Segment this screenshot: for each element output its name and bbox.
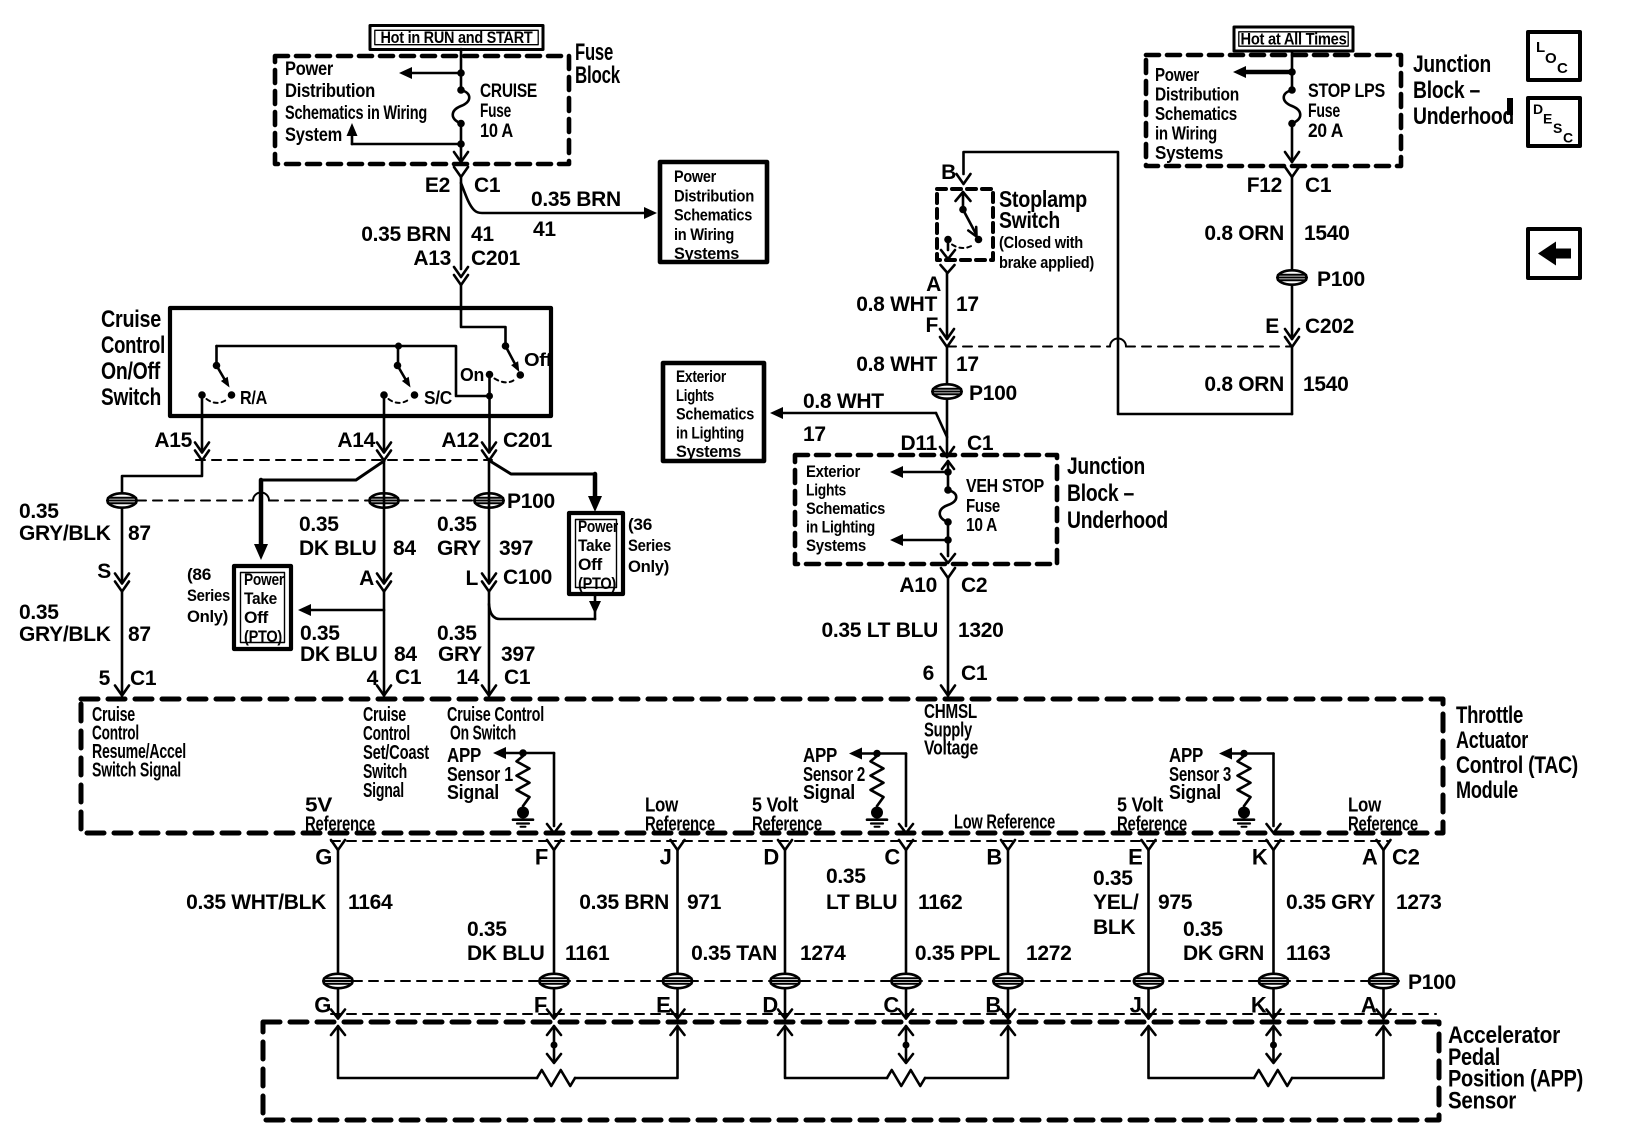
connector chevron at B xyxy=(941,161,970,184)
svg-text:Switch: Switch xyxy=(999,207,1060,233)
svg-text:C201: C201 xyxy=(471,247,521,270)
branch wire to exterior lights box xyxy=(770,407,947,437)
labels 0.35 BRN | 41 xyxy=(361,223,494,246)
labels 0.35 DK BLU | 84 upper xyxy=(299,513,416,560)
wire label 0.35 LT BLU | 1162 xyxy=(826,865,962,914)
splice A double chevron xyxy=(359,567,391,592)
svg-text:A12: A12 xyxy=(441,429,479,452)
svg-text:GRY/BLK: GRY/BLK xyxy=(19,522,111,545)
svg-text:41: 41 xyxy=(533,218,556,241)
R/A contact dots and throw arc xyxy=(198,391,235,403)
svg-text:DK BLU: DK BLU xyxy=(299,537,377,560)
svg-text:6: 6 xyxy=(923,662,934,685)
connector C202 dashed line with hop xyxy=(947,339,1292,347)
R/A switch arm xyxy=(217,366,230,388)
svg-text:GRY/BLK: GRY/BLK xyxy=(19,623,111,646)
wire On contact down xyxy=(488,375,491,397)
svg-text:397: 397 xyxy=(499,537,533,560)
svg-text:Junction: Junction xyxy=(1413,51,1491,78)
wire 0.35 BRN 41 down to C201 xyxy=(460,177,463,269)
svg-text:P100: P100 xyxy=(507,490,555,513)
svg-text:17: 17 xyxy=(803,423,826,446)
svg-text:1540: 1540 xyxy=(1304,222,1350,245)
chevron into TAC at pin 6 xyxy=(941,686,955,696)
connector oval P100 on GRY wire xyxy=(474,493,504,507)
LOC index box xyxy=(1528,32,1580,80)
svg-text:Power: Power xyxy=(1155,65,1199,85)
svg-text:S: S xyxy=(97,560,111,583)
arrow to exterior lights (left) upper xyxy=(890,466,948,478)
svg-text:Hot at All Times: Hot at All Times xyxy=(1241,30,1347,49)
label: Stoplamp Switch (Closed with brake applied) xyxy=(999,186,1094,272)
svg-text:Cruise: Cruise xyxy=(101,306,161,333)
wire A12 down through P100 xyxy=(488,461,491,584)
chevron into TAC at pin 4 xyxy=(377,686,391,696)
APP potentiometer 2 wiper xyxy=(899,1026,913,1063)
svg-text:Exterior: Exterior xyxy=(806,463,861,481)
svg-text:0.35 LT BLU: 0.35 LT BLU xyxy=(822,619,939,642)
svg-text:STOP LPS: STOP LPS xyxy=(1308,81,1385,102)
fuse CRUISE Fuse 10 A xyxy=(453,86,470,127)
svg-text:0.35 WHT/BLK: 0.35 WHT/BLK xyxy=(186,891,326,914)
svg-text:Junction: Junction xyxy=(1067,453,1145,480)
label: Cruise Control On/Off Switch xyxy=(101,306,165,411)
thick arrow to power distribution xyxy=(1233,66,1292,78)
svg-text:0.35: 0.35 xyxy=(437,622,477,645)
svg-text:G: G xyxy=(314,993,331,1018)
svg-text:87: 87 xyxy=(128,522,151,545)
svg-text:0.35: 0.35 xyxy=(19,601,59,624)
svg-text:brake applied): brake applied) xyxy=(999,253,1094,272)
svg-text:C: C xyxy=(884,845,900,870)
svg-text:84: 84 xyxy=(394,643,417,666)
labels 0.35 GRY | 397 lower xyxy=(437,622,535,666)
svg-text:Reference: Reference xyxy=(305,814,375,836)
label: STOP LPS Fuse 20 A xyxy=(1308,81,1385,142)
svg-text:(86: (86 xyxy=(187,566,211,584)
svg-text:17: 17 xyxy=(956,293,979,316)
DESC index box xyxy=(1528,98,1580,146)
label: Throttle Actuator Control (TAC) Module xyxy=(1456,702,1578,804)
P100 dashed line upper xyxy=(137,493,474,501)
label: CHMSL Supply Voltage xyxy=(924,701,978,760)
svg-text:C1: C1 xyxy=(967,432,994,455)
wire 0.35 GRY/BLK 87 lower xyxy=(121,592,124,696)
wire S/C contact to A14 xyxy=(383,395,386,452)
APP potentiometer 3 wiper xyxy=(1267,1026,1281,1063)
svg-text:1161: 1161 xyxy=(565,942,610,965)
svg-text:in Wiring: in Wiring xyxy=(1155,124,1217,144)
svg-text:A: A xyxy=(1362,845,1378,870)
note (86 Series Only) xyxy=(187,566,230,626)
label: Cruise Control Set/Coast Switch Signal xyxy=(363,704,429,802)
svg-text:Systems: Systems xyxy=(674,244,739,263)
arrow-out chevron at junction block exit xyxy=(1285,152,1299,162)
svg-text:On/Off: On/Off xyxy=(101,358,161,385)
connector chevron at A below stoplamp xyxy=(926,265,954,296)
svg-text:0.35 GRY: 0.35 GRY xyxy=(1286,891,1375,914)
connector C100 chevron L xyxy=(465,566,552,592)
arrow to power distribution (left) xyxy=(399,67,461,79)
svg-text:0.35 BRN: 0.35 BRN xyxy=(531,188,621,211)
chevron into TAC at pin 14 xyxy=(482,686,496,696)
svg-text:Power: Power xyxy=(578,518,619,536)
wire 0.8 ORN 1540 lower xyxy=(1291,347,1294,414)
P100 connector ovals row xyxy=(323,974,1399,988)
component box: Cruise Control On/Off Switch xyxy=(170,308,551,416)
svg-text:(PTO): (PTO) xyxy=(244,628,282,646)
wire label 0.35 BRN | 971 xyxy=(579,891,722,914)
connector oval P100 on WHT wire xyxy=(932,384,962,398)
wire R/A contact to A15 xyxy=(201,395,204,452)
svg-text:Fuse: Fuse xyxy=(480,101,511,122)
svg-text:D11: D11 xyxy=(901,432,938,455)
labels 0.8 ORN | 1540 upper xyxy=(1204,222,1349,245)
S/C switch pivot xyxy=(394,343,402,370)
pin labels 5 | C1 xyxy=(99,667,157,690)
edge mark xyxy=(1507,98,1513,115)
junction dot lower xyxy=(944,536,952,544)
wire: 0.35 BRN 41 branch to right xyxy=(461,183,657,219)
label: Cruise Control Resume/Accel Switch Signal xyxy=(92,704,186,782)
labels 0.35 GRY | 397 upper xyxy=(437,513,533,560)
pin letters bottom row G F E D C B J K A xyxy=(314,993,1377,1018)
svg-text:P100: P100 xyxy=(969,382,1017,405)
APP sensor 1 internal circuit xyxy=(493,747,561,833)
svg-text:Actuator: Actuator xyxy=(1456,727,1528,754)
wire A14 down through P100 xyxy=(383,461,386,584)
wire below fuse xyxy=(1291,124,1294,163)
svg-text:971: 971 xyxy=(687,891,722,914)
svg-text:1273: 1273 xyxy=(1396,891,1442,914)
label: VEH STOP Fuse 10 A xyxy=(966,476,1044,535)
wire from Hot tag into junction block xyxy=(1291,51,1294,90)
junction dot xyxy=(486,393,493,400)
tag box: Hot in RUN and START xyxy=(370,26,543,50)
svg-text:Reference: Reference xyxy=(1117,814,1187,836)
fuse STOP LPS 20 A xyxy=(1284,86,1301,127)
wire 0.8 WHT 17 lower xyxy=(946,347,949,384)
label: Junction Block - Underhood 2 xyxy=(1067,453,1168,534)
PTO box (86 series) xyxy=(234,566,291,649)
svg-text:Series: Series xyxy=(187,587,230,605)
svg-text:Signal: Signal xyxy=(447,782,499,804)
svg-text:(36: (36 xyxy=(628,516,652,534)
APP potentiometer 2 track xyxy=(778,1026,1015,1086)
svg-text:Distribution: Distribution xyxy=(285,81,375,102)
svg-text:F: F xyxy=(925,314,938,337)
svg-text:C1: C1 xyxy=(504,666,531,689)
arrow to exterior lights (left) lower xyxy=(890,534,948,546)
svg-text:(Closed with: (Closed with xyxy=(999,233,1083,252)
svg-text:975: 975 xyxy=(1158,891,1193,914)
fuse block dashed box xyxy=(275,56,569,164)
svg-text:0.35: 0.35 xyxy=(467,918,507,941)
svg-text:C100: C100 xyxy=(503,566,552,589)
label: 5 Volt Reference (E) xyxy=(1117,795,1187,836)
labels 0.35 GRY/BLK | 87 lower xyxy=(19,601,151,646)
back arrow box xyxy=(1528,229,1580,278)
svg-text:Module: Module xyxy=(1456,777,1518,804)
svg-text:DK BLU: DK BLU xyxy=(300,643,378,666)
label: APP Sensor 2 Signal xyxy=(803,745,865,804)
svg-text:On Switch: On Switch xyxy=(450,723,516,745)
svg-text:C2: C2 xyxy=(1392,845,1420,870)
svg-text:C1: C1 xyxy=(395,666,422,689)
C201 chevrons at A15 A14 A12 xyxy=(195,443,209,453)
svg-text:Block: Block xyxy=(575,62,621,89)
svg-text:J: J xyxy=(660,845,672,870)
svg-text:G: G xyxy=(315,845,332,870)
svg-text:in Wiring: in Wiring xyxy=(674,225,734,244)
svg-text:Schematics: Schematics xyxy=(806,500,885,518)
svg-text:P100: P100 xyxy=(1317,268,1365,291)
connector chevron F12/C1 xyxy=(1285,167,1299,177)
svg-text:On: On xyxy=(460,365,484,385)
svg-text:C: C xyxy=(1557,60,1568,77)
dashed throw arc On-Off xyxy=(495,379,516,383)
svg-text:Only): Only) xyxy=(628,558,669,576)
svg-text:5: 5 xyxy=(99,667,111,690)
wire A15 jog left down to P100 xyxy=(122,461,202,493)
svg-text:Fuse: Fuse xyxy=(966,496,1000,516)
svg-text:Systems: Systems xyxy=(676,442,741,461)
splice S double chevron xyxy=(97,560,129,592)
svg-text:Switch: Switch xyxy=(101,384,161,411)
reference box: Power Distribution Schematics in Wiring Systems xyxy=(660,162,767,263)
wire 0.8 ORN 1540 upper xyxy=(1291,177,1294,269)
svg-text:C1: C1 xyxy=(130,667,157,690)
svg-text:F12: F12 xyxy=(1247,174,1282,197)
svg-text:Signal: Signal xyxy=(803,782,855,804)
svg-text:GRY: GRY xyxy=(438,643,482,666)
arrow from A to PTO box (left) xyxy=(298,604,384,616)
Off contact dot xyxy=(517,371,525,379)
svg-text:S: S xyxy=(1553,120,1562,136)
svg-text:K: K xyxy=(1252,845,1268,870)
svg-text:20 A: 20 A xyxy=(1308,121,1344,142)
APP sensor 2 internal circuit xyxy=(849,748,913,834)
pin labels E | C202 xyxy=(1265,315,1354,338)
pin labels D11 | C1 xyxy=(901,432,994,455)
label: 5V Reference xyxy=(305,795,375,836)
wire 0.35 GRY/BLK 87 upper xyxy=(121,509,124,584)
wire into cruise switch box xyxy=(460,285,463,310)
label: Cruise Control On Switch xyxy=(447,704,544,745)
wire label 0.35 YEL/BLK | 975 xyxy=(1093,867,1193,939)
junction block underhood dashed box xyxy=(1146,55,1401,166)
R/A switch pivot xyxy=(213,346,221,369)
svg-text:0.8 WHT: 0.8 WHT xyxy=(803,390,884,413)
svg-text:0.8 WHT: 0.8 WHT xyxy=(856,293,937,316)
svg-text:A13: A13 xyxy=(413,247,451,270)
svg-text:1272: 1272 xyxy=(1026,942,1072,965)
svg-text:0.8 ORN: 0.8 ORN xyxy=(1204,222,1284,245)
svg-text:41: 41 xyxy=(471,223,494,246)
label: Low Reference (A) xyxy=(1348,795,1418,836)
svg-text:E2: E2 xyxy=(425,174,450,197)
svg-text:Power: Power xyxy=(244,571,285,589)
label: APP Sensor 1 Signal xyxy=(447,745,513,804)
pin labels F12 | C1 xyxy=(1247,174,1332,197)
svg-text:Control (TAC): Control (TAC) xyxy=(1456,752,1578,779)
note: Exterior Lights Schematics in Lighting Systems xyxy=(806,463,885,555)
wire 0.8 WHT 17 upper xyxy=(946,273,949,339)
svg-text:0.35: 0.35 xyxy=(826,865,866,888)
svg-text:1162: 1162 xyxy=(918,891,962,914)
reference box: Exterior Lights Schematics in Lighting Systems xyxy=(663,363,764,461)
svg-text:1164: 1164 xyxy=(348,891,393,914)
svg-text:C1: C1 xyxy=(474,174,501,197)
svg-text:0.35: 0.35 xyxy=(1093,867,1133,890)
connector chevron E2/C1 xyxy=(454,167,468,177)
svg-text:GRY: GRY xyxy=(437,537,481,560)
connector oval P100 on GRY/BLK wire xyxy=(107,493,137,507)
svg-text:VEH STOP: VEH STOP xyxy=(966,476,1044,496)
svg-text:C202: C202 xyxy=(1305,315,1354,338)
svg-text:Off: Off xyxy=(578,556,603,574)
svg-text:1320: 1320 xyxy=(958,619,1004,642)
svg-text:S/C: S/C xyxy=(424,388,452,408)
svg-text:10 A: 10 A xyxy=(966,515,997,535)
svg-text:Schematics: Schematics xyxy=(1155,104,1237,124)
wire from Hot tag into fuse block xyxy=(460,49,463,90)
note: Power Distribution Schematics in Wiring System xyxy=(285,59,427,146)
svg-text:Switch Signal: Switch Signal xyxy=(92,760,181,782)
svg-text:BLK: BLK xyxy=(1093,916,1135,939)
wire label 0.35 GRY | 1273 xyxy=(1286,891,1442,914)
connector C2 dashed line xyxy=(331,840,1388,842)
S/C switch arm xyxy=(398,366,411,388)
wire routing left and up to stoplamp B xyxy=(964,152,1293,414)
label: Low Reference (J) xyxy=(645,795,715,836)
svg-text:C201: C201 xyxy=(503,429,553,452)
svg-text:Block –: Block – xyxy=(1067,480,1134,507)
branch A12 diagonal to PTO (36 series) xyxy=(490,461,595,474)
svg-text:0.8 WHT: 0.8 WHT xyxy=(856,353,937,376)
svg-text:0.35 TAN: 0.35 TAN xyxy=(691,942,777,965)
svg-text:10 A: 10 A xyxy=(480,121,513,142)
wire label 0.35 PPL | 1272 xyxy=(915,942,1072,965)
svg-text:System: System xyxy=(285,125,342,146)
svg-text:Reference: Reference xyxy=(645,814,715,836)
arrow-out chevron at fuse block exit xyxy=(454,152,468,162)
svg-text:Exterior: Exterior xyxy=(676,367,727,386)
wire label 0.35 DK BLU | 1161 xyxy=(467,918,610,965)
wires P100 to APP sensor xyxy=(338,989,1384,1019)
svg-text:E: E xyxy=(1128,845,1142,870)
svg-text:(PTO): (PTO) xyxy=(578,575,616,593)
svg-text:Low Reference: Low Reference xyxy=(954,812,1055,834)
svg-text:A10: A10 xyxy=(899,574,937,597)
svg-text:D: D xyxy=(763,845,779,870)
svg-text:Series: Series xyxy=(628,537,671,555)
svg-text:Reference: Reference xyxy=(752,814,822,836)
svg-text:C: C xyxy=(1563,130,1573,146)
pin labels E2 | C1 xyxy=(425,174,501,197)
svg-text:R/A: R/A xyxy=(240,388,267,408)
thick arrow down into PTO box 36 xyxy=(588,474,602,512)
svg-text:Lights: Lights xyxy=(806,482,846,500)
wire label 0.35 WHT/BLK | 1164 xyxy=(186,891,393,914)
svg-text:Schematics: Schematics xyxy=(674,206,752,225)
junction dot xyxy=(457,140,465,148)
labels A13 | C201 xyxy=(413,247,520,270)
svg-text:0.35: 0.35 xyxy=(437,513,477,536)
pin labels 14 | C1 xyxy=(456,666,531,689)
arrow return to power distribution (up-left) xyxy=(347,123,462,144)
labels 0.8 ORN | 1540 lower xyxy=(1204,373,1348,396)
svg-text:C1: C1 xyxy=(961,662,988,685)
svg-text:Fuse: Fuse xyxy=(1308,101,1340,122)
labels 0.35 DK BLU | 84 lower xyxy=(300,622,417,666)
svg-text:0.35: 0.35 xyxy=(19,500,59,523)
svg-text:L: L xyxy=(465,567,478,590)
fuse VEH STOP 10 A xyxy=(940,486,957,526)
svg-text:Signal: Signal xyxy=(363,780,404,802)
wire below fuse xyxy=(460,124,463,163)
svg-text:A14: A14 xyxy=(337,429,375,452)
svg-text:O: O xyxy=(1545,50,1557,67)
note (36 Series Only) xyxy=(628,516,671,576)
svg-text:0.35: 0.35 xyxy=(299,513,339,536)
tag box: Hot at All Times xyxy=(1234,27,1353,51)
svg-text:P100: P100 xyxy=(1408,971,1456,994)
svg-text:14: 14 xyxy=(456,666,479,689)
wire down with exit arrow xyxy=(941,522,955,563)
svg-text:Off: Off xyxy=(244,609,269,627)
svg-text:Control: Control xyxy=(101,332,165,359)
branch labels 0.8 WHT / 17 xyxy=(803,390,884,446)
in-line connector C202 chevron at E xyxy=(1285,329,1299,339)
svg-text:Schematics: Schematics xyxy=(676,405,754,424)
svg-text:Distribution: Distribution xyxy=(1155,85,1239,105)
svg-text:1163: 1163 xyxy=(1286,942,1330,965)
svg-text:1540: 1540 xyxy=(1303,373,1349,396)
svg-text:F: F xyxy=(535,845,548,870)
svg-text:C1: C1 xyxy=(1305,174,1332,197)
wire down to D11 xyxy=(946,400,949,458)
junction block underhood 2 dashed box xyxy=(795,455,1057,564)
labels 0.8 WHT | 17 lower xyxy=(856,353,979,376)
svg-text:DK BLU: DK BLU xyxy=(467,942,545,965)
wire label 0.35 TAN | 1274 xyxy=(691,942,846,965)
wire to A12 below box xyxy=(488,396,491,452)
svg-text:Underhood: Underhood xyxy=(1067,507,1168,534)
wire into junction 2 with up arrow xyxy=(942,461,954,490)
svg-text:Block –: Block – xyxy=(1413,77,1480,104)
label: Accelerator Pedal Position (APP) Sensor xyxy=(1448,1022,1583,1114)
wire A down to pin 4 xyxy=(383,592,386,696)
label: CRUISE Fuse 10 A xyxy=(480,81,537,142)
svg-text:0.35 PPL: 0.35 PPL xyxy=(915,942,1001,965)
svg-text:0.35 BRN: 0.35 BRN xyxy=(579,891,669,914)
pin labels 6 | C1 xyxy=(923,662,988,685)
connector chevron D11 xyxy=(940,447,954,457)
svg-text:Voltage: Voltage xyxy=(924,738,978,760)
APP potentiometer 3 track xyxy=(1142,1026,1391,1086)
pin labels 4 | C1 xyxy=(367,666,422,690)
svg-text:0.35: 0.35 xyxy=(1183,918,1223,941)
svg-text:0.35 BRN: 0.35 BRN xyxy=(361,223,451,246)
svg-text:A: A xyxy=(359,567,374,590)
svg-text:Lights: Lights xyxy=(676,386,714,405)
note: Power Distribution Schematics in Wiring Systems xyxy=(1155,65,1239,163)
svg-text:CRUISE: CRUISE xyxy=(480,81,537,102)
pin letters top row G F J D C B E K A | C2 xyxy=(315,845,1419,870)
svg-text:Take: Take xyxy=(244,590,277,608)
label: 5 Volt Reference (D) xyxy=(752,795,822,836)
